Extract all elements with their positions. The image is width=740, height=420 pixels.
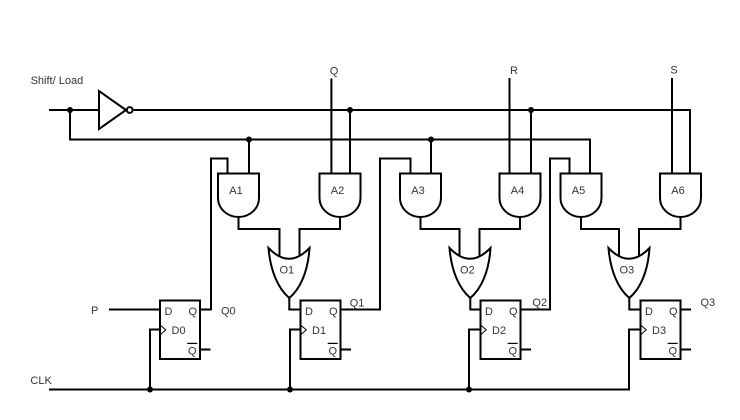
wire Shift/Load input — [49, 109, 99, 111]
flip-flop D2 — [481, 301, 521, 360]
or-gate O1 — [269, 248, 310, 298]
svg-text:D3: D3 — [652, 325, 666, 337]
wire A3 output to O2 — [421, 216, 460, 258]
flip-flop D3 — [641, 301, 681, 360]
svg-text:D2: D2 — [492, 325, 506, 337]
svg-text:A1: A1 — [229, 185, 242, 197]
wire rail1 drop to A4 — [530, 110, 532, 174]
svg-text:D: D — [305, 306, 313, 318]
wire CLK rail — [49, 330, 641, 390]
svg-text:O2: O2 — [460, 265, 475, 277]
svg-text:Q: Q — [329, 306, 338, 318]
svg-text:D: D — [165, 306, 173, 318]
inverter U1 — [99, 91, 133, 129]
and-gate A2 — [320, 174, 361, 218]
wire P input to D0 — [109, 309, 160, 311]
wire non-inverted line (SHIFT rail) — [70, 110, 590, 174]
svg-text:R: R — [510, 65, 518, 77]
svg-text:Q: Q — [188, 346, 197, 358]
wire A6 output to O3 — [639, 216, 681, 258]
svg-text:CLK: CLK — [30, 375, 52, 387]
and-gate A3 — [400, 174, 441, 218]
junction dot CLK to D1 — [287, 387, 293, 393]
svg-text:S: S — [670, 65, 677, 77]
wire D0 Qbar stub — [200, 349, 211, 351]
and-gate A5 — [561, 174, 602, 218]
svg-text:D: D — [645, 306, 653, 318]
wire CLK to D2 clock pin — [469, 330, 481, 390]
wire A4 output to O2 — [480, 216, 521, 258]
wire Q1 feedback to A3 — [341, 159, 411, 310]
junction dot rail1 to A2 — [347, 107, 353, 113]
svg-text:Q1: Q1 — [350, 298, 365, 310]
wire O2 output to D2 — [470, 298, 480, 310]
wire S input to A6 — [671, 78, 673, 174]
svg-text:O3: O3 — [619, 265, 634, 277]
or-gate O2 — [450, 248, 491, 298]
junction dot rail2 to A3 — [428, 137, 434, 143]
wire A2 output to O1 — [300, 216, 341, 258]
wire rail2 drop to A3 — [430, 140, 432, 174]
wire R input to A4 — [509, 78, 511, 174]
wire rail1 drop to A2 — [349, 110, 351, 174]
wire D1 Qbar stub — [341, 349, 352, 351]
svg-text:A6: A6 — [671, 185, 684, 197]
wire O1 output to D1 — [289, 298, 300, 310]
wire O3 output to D3 — [629, 298, 640, 310]
wire rail2 drop to A1 — [248, 140, 250, 174]
wire D3 Q output stub — [681, 309, 692, 311]
svg-text:Q: Q — [330, 66, 339, 78]
junction dot Shift/Load — [67, 107, 73, 113]
junction dot CLK to D0 — [147, 387, 153, 393]
and-gate A1 — [218, 174, 259, 218]
svg-text:Q: Q — [189, 306, 198, 318]
svg-text:Q: Q — [329, 346, 338, 358]
svg-text:A5: A5 — [572, 185, 585, 197]
svg-text:A4: A4 — [511, 185, 524, 197]
wire D3 Qbar stub — [681, 349, 692, 351]
wire A5 output to O3 — [581, 216, 619, 258]
and-gate A6 — [660, 174, 701, 218]
and-gate A4 — [500, 174, 541, 218]
junction dot rail1 to A4 — [528, 107, 534, 113]
svg-text:Q: Q — [509, 306, 518, 318]
junction dot CLK to D2 — [466, 387, 472, 393]
svg-text:Q0: Q0 — [221, 306, 236, 318]
svg-text:D: D — [485, 306, 493, 318]
wire inverted line (LOAD bar rail) — [134, 110, 690, 174]
or-gate O3 — [609, 248, 650, 298]
svg-text:A3: A3 — [411, 185, 424, 197]
svg-text:D0: D0 — [172, 325, 186, 337]
svg-text:Q2: Q2 — [532, 297, 547, 309]
svg-text:O1: O1 — [279, 265, 294, 277]
wire Q2 feedback to A5 — [521, 159, 570, 310]
wire CLK to D0 clock pin — [150, 330, 160, 390]
flip-flop D0 — [160, 301, 200, 360]
wire CLK to D1 clock pin — [290, 330, 301, 390]
wire D2 Qbar stub — [521, 349, 532, 351]
wire Q0 feedback to A1 — [200, 159, 228, 310]
wire A1 output to O1 — [239, 216, 280, 258]
junction dot rail2 to A1 — [246, 137, 252, 143]
svg-text:Q3: Q3 — [701, 297, 716, 309]
svg-text:Q: Q — [669, 346, 678, 358]
svg-text:Q: Q — [669, 306, 678, 318]
svg-text:Q: Q — [509, 346, 518, 358]
svg-text:Shift/ Load: Shift/ Load — [31, 75, 84, 87]
svg-text:A2: A2 — [331, 185, 344, 197]
wire Q input to A2 — [330, 79, 332, 174]
svg-text:P: P — [91, 305, 98, 317]
svg-text:D1: D1 — [312, 325, 326, 337]
flip-flop D1 — [301, 301, 341, 360]
